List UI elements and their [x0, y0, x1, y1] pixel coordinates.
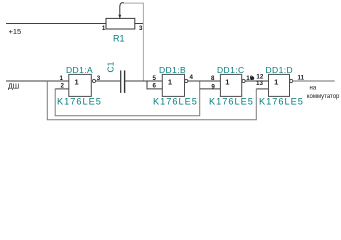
- capacitor C1 plates: [120, 70, 121, 93]
- op DD1:A gate box: [69, 74, 92, 96]
- svg-text:1: 1: [102, 25, 106, 32]
- svg-text:6: 6: [153, 83, 157, 90]
- wire DD1:B output to DD1:C inputs: [188, 80, 221, 82]
- svg-text:+15: +15: [9, 27, 22, 36]
- svg-text:коммутатор: коммутатор: [307, 94, 340, 100]
- wire outer feedback loop to DD1:D pin13: [47, 81, 256, 120]
- wire DD1:C output to DD1:D inputs: [245, 80, 268, 82]
- wire C1 to DD1:B inputs: [125, 80, 162, 82]
- wire DD1:D output: [293, 80, 335, 82]
- svg-text:1: 1: [274, 78, 278, 87]
- svg-text:1: 1: [168, 78, 172, 87]
- svg-text:11: 11: [298, 75, 305, 82]
- svg-text:DD1:B: DD1:B: [159, 65, 186, 75]
- svg-text:K176LE5: K176LE5: [57, 96, 102, 106]
- svg-text:K176LE5: K176LE5: [209, 96, 254, 106]
- resistor R1 body: [106, 18, 135, 29]
- svg-text:DD1:C: DD1:C: [217, 65, 245, 75]
- resistor R1 wiper arrow: [120, 3, 124, 19]
- svg-text:13: 13: [256, 80, 263, 87]
- svg-text:ДШ: ДШ: [8, 83, 19, 90]
- wire DSh input rail: [6, 80, 69, 82]
- svg-text:DD1:A: DD1:A: [66, 65, 93, 75]
- wire DD1:B pin6 drop: [147, 81, 162, 89]
- svg-text:1: 1: [75, 78, 79, 87]
- junction dot near pin10: [251, 77, 254, 80]
- svg-text:9: 9: [211, 83, 215, 90]
- svg-text:на: на: [310, 85, 317, 91]
- op DD1:C gate box: [220, 74, 241, 96]
- wire wiper return link (gray): [124, 3, 143, 81]
- svg-text:K176LE5: K176LE5: [259, 96, 304, 106]
- svg-text:DD1:D: DD1:D: [266, 65, 294, 75]
- svg-text:3: 3: [139, 25, 143, 32]
- svg-text:8: 8: [211, 75, 215, 82]
- svg-text:5: 5: [153, 75, 157, 82]
- wire DD1:A pin2 segment: [55, 88, 69, 90]
- svg-text:2: 2: [61, 83, 65, 90]
- svg-text:4: 4: [190, 74, 194, 81]
- wire +15 rail: [6, 23, 106, 25]
- wire DD1:A output to C1: [96, 80, 121, 82]
- op DD1:D gate box: [269, 74, 290, 96]
- wire R1 pin3 stub: [135, 23, 144, 25]
- svg-text:1: 1: [60, 75, 64, 82]
- op DD1:B gate box: [162, 74, 184, 96]
- svg-text:1: 1: [225, 78, 229, 87]
- svg-text:R1: R1: [113, 33, 125, 43]
- wire inner feedback loop to DD1:A pin2: [55, 81, 200, 116]
- wire DD1:D pin13 segment: [256, 88, 268, 90]
- wire DD1:C pin9 segment: [200, 88, 221, 90]
- svg-text:K176LE5: K176LE5: [153, 96, 198, 106]
- svg-text:C1: C1: [106, 61, 116, 72]
